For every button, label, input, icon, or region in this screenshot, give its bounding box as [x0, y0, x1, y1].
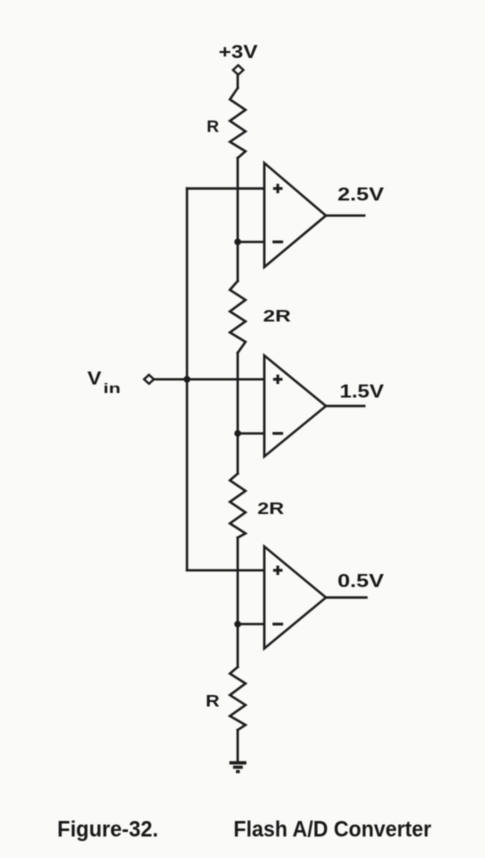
svg-text:1.5V: 1.5V	[340, 382, 384, 402]
U2 - pin mark	[273, 432, 284, 435]
svg-text:R: R	[207, 117, 219, 136]
wire: U2 output	[326, 405, 364, 407]
op-amp U3	[264, 547, 326, 649]
svg-text:in: in	[103, 380, 120, 396]
wire: +3V terminal to resistor R1	[236, 75, 238, 88]
caption: Flash A/D Converter	[234, 817, 432, 842]
U2 + pin mark	[273, 375, 282, 384]
svg-text:Figure-32.: Figure-32.	[57, 817, 158, 842]
wire: ladder segment R3 to R4	[236, 538, 238, 667]
caption: Figure-32.	[57, 817, 158, 842]
junction dot: U1 inverting tap	[234, 239, 241, 246]
svg-text:+3V: +3V	[219, 42, 258, 62]
svg-text:Flash A/D Converter: Flash A/D Converter	[234, 817, 432, 842]
svg-text:V: V	[87, 368, 101, 388]
junction dot: Vin bus junction	[184, 376, 191, 383]
Vin bus wire (left vertical)	[186, 189, 188, 571]
U1 - pin mark	[273, 240, 284, 243]
U1 + pin mark	[273, 184, 282, 193]
+3V terminal	[233, 65, 243, 75]
svg-text:2R: 2R	[263, 307, 291, 326]
label 2R (R2)	[263, 307, 291, 326]
resistor R2 (2R)	[230, 281, 246, 353]
label 2.5V	[338, 185, 384, 205]
wire: ladder segment R2 to R3	[236, 353, 238, 474]
svg-text:2R: 2R	[257, 499, 284, 518]
label 2R (R3)	[257, 499, 284, 518]
label 0.5V	[338, 571, 384, 591]
junction dot: U3 inverting tap	[234, 621, 241, 628]
wire: ladder to U1 - input	[238, 241, 265, 243]
label 1.5V	[340, 382, 384, 402]
resistor R4 (R)	[230, 667, 246, 730]
resistor R1	[230, 88, 246, 158]
junction dot: U2 inverting tap	[234, 430, 241, 437]
op-amp U2	[264, 356, 326, 457]
wire: Vin terminal to U2 + input	[154, 378, 264, 380]
U3 + pin mark	[273, 566, 282, 575]
wire: bus to U3 + input	[187, 569, 264, 571]
svg-text:R: R	[206, 692, 220, 711]
svg-text:2.5V: 2.5V	[338, 185, 384, 205]
wire: U3 output	[326, 596, 367, 598]
op-amp U1	[264, 163, 326, 267]
label R (R4)	[206, 692, 220, 711]
wire: ladder to U2 - input	[238, 432, 265, 434]
+3V supply label	[219, 42, 258, 62]
wire: bus to U1 + input	[187, 187, 264, 189]
resistor R3 (2R)	[230, 474, 246, 538]
Vin terminal	[144, 375, 154, 384]
label R (R1)	[207, 117, 219, 136]
svg-text:0.5V: 0.5V	[338, 571, 384, 591]
U3 - pin mark	[273, 623, 284, 626]
Vin label	[87, 368, 120, 396]
wire: ladder segment R1 to R2	[236, 158, 238, 281]
wire: R4 to ground	[236, 730, 238, 761]
ground	[229, 763, 246, 772]
wire: ladder to U3 - input	[238, 623, 265, 625]
wire: U1 output	[326, 214, 364, 216]
